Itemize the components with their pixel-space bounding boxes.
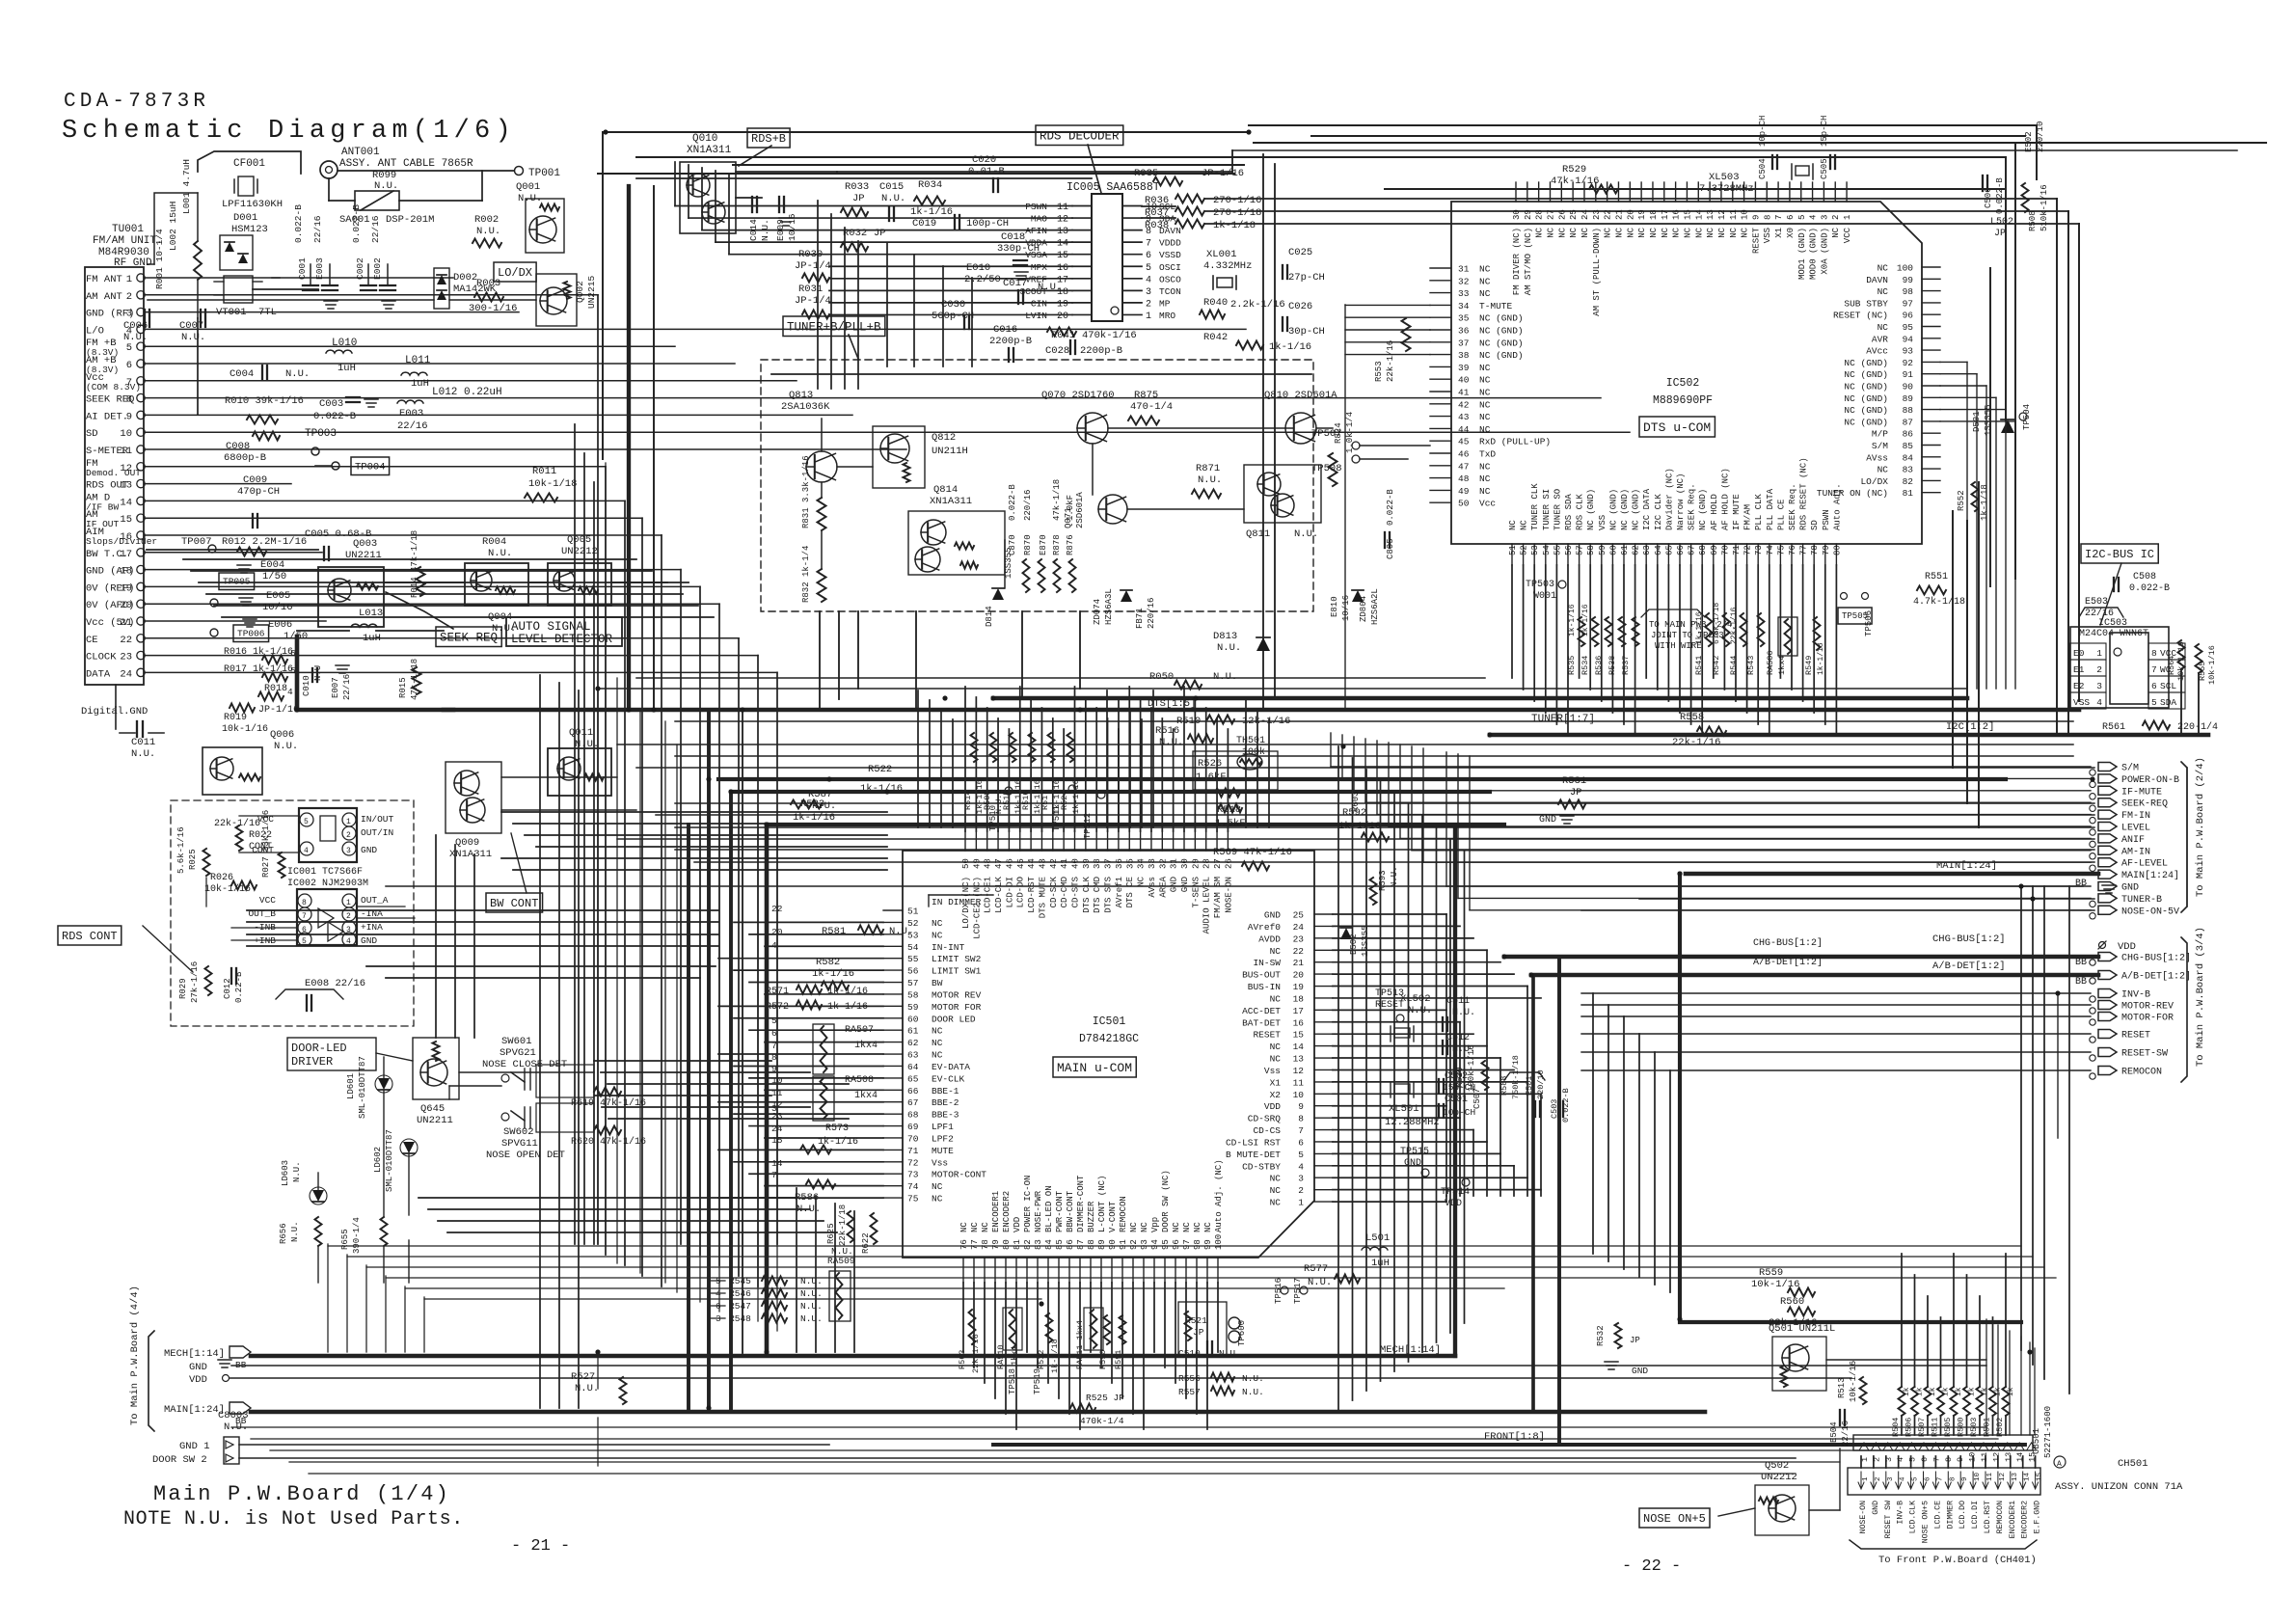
svg-text:IC502: IC502 <box>1666 377 1700 390</box>
IC501 pin 49 LCD-CE2 (NC) <box>975 831 977 851</box>
svg-text:16: 16 <box>1057 263 1068 274</box>
svg-text:Q005: Q005 <box>567 534 591 546</box>
svg-text:1: 1 <box>1146 311 1151 322</box>
IC501 pin 42 CD-SCK <box>1052 831 1054 851</box>
test point TP006 <box>233 625 269 642</box>
IC501 pin 62 NC <box>883 1042 903 1043</box>
bus FRONT[1:8] thick <box>993 1443 1559 1447</box>
svg-text:44: 44 <box>1458 424 1470 435</box>
wire tuner pin 21 <box>145 620 326 622</box>
svg-text:MOTOR-FOR: MOTOR-FOR <box>2121 1014 2174 1024</box>
svg-text:E006: E006 <box>268 619 292 631</box>
svg-text:R561: R561 <box>2102 722 2125 733</box>
svg-text:DIMMER-CONT: DIMMER-CONT <box>1076 1175 1086 1232</box>
svg-text:R002: R002 <box>474 214 499 226</box>
svg-text:96: 96 <box>1903 311 1914 321</box>
svg-text:Q501 UN211L: Q501 UN211L <box>1769 1323 1835 1335</box>
varactor VT001 <box>224 276 253 303</box>
IC501 pin 16 BAT-DET <box>1314 1021 1333 1023</box>
svg-text:NOSE-ON: NOSE-ON <box>1224 877 1233 913</box>
svg-text:CE: CE <box>86 635 98 646</box>
svg-text:55: 55 <box>1553 545 1562 555</box>
IC005 pin 7 VDDD <box>1122 241 1142 243</box>
svg-text:C015: C015 <box>879 181 904 193</box>
IC501 pin 100 Auto Adj. (NC) <box>1217 1258 1219 1283</box>
crystal XL501 12.288MHz <box>1394 1084 1410 1094</box>
svg-text:HZS6A2L: HZS6A2L <box>1370 588 1380 625</box>
IC501 pin 80 ENCODER2 <box>1005 1258 1007 1283</box>
svg-text:10k-1/16: 10k-1/16 <box>1751 1279 1799 1290</box>
IC501 pin 86 BBW-CONT <box>1068 1258 1070 1283</box>
svg-text:10/16: 10/16 <box>1341 595 1351 621</box>
svg-text:NC: NC <box>1877 322 1889 333</box>
svg-text:DRIVER: DRIVER <box>291 1055 333 1069</box>
IC502 pin 43 NC <box>1430 416 1451 418</box>
svg-text:BAT-DET: BAT-DET <box>1242 1017 1281 1028</box>
svg-text:4.332MHz: 4.332MHz <box>1203 260 1252 272</box>
IC501 pin 70 LPF2 <box>883 1137 903 1139</box>
svg-text:LO/DX: LO/DX <box>498 266 532 280</box>
svg-text:JP: JP <box>1570 787 1582 798</box>
svg-text:R034: R034 <box>918 179 942 191</box>
wire decoder lower pins <box>829 265 1072 267</box>
svg-text:SPVG21: SPVG21 <box>500 1047 536 1059</box>
svg-text:RDS CLK: RDS CLK <box>1576 494 1585 530</box>
svg-text:1: 1 <box>346 818 351 826</box>
svg-text:NC: NC <box>932 1038 943 1048</box>
svg-text:ANT001: ANT001 <box>341 147 380 158</box>
svg-text:NOSE ON+5: NOSE ON+5 <box>1643 1512 1706 1526</box>
svg-text:5: 5 <box>771 1015 777 1026</box>
svg-text:62: 62 <box>1632 545 1641 555</box>
IC501 pin 76 NC <box>962 1258 964 1283</box>
IC502 pin 75 PLL CE <box>1779 544 1781 565</box>
svg-text:LPF11630KH: LPF11630KH <box>222 199 283 210</box>
svg-text:47: 47 <box>1458 461 1469 472</box>
IC502 pin 11 NC <box>1732 182 1734 202</box>
svg-text:VCC: VCC <box>1843 227 1852 243</box>
svg-text:7: 7 <box>1774 215 1784 220</box>
svg-text:R040: R040 <box>1203 297 1228 309</box>
svg-text:11: 11 <box>1729 209 1739 220</box>
svg-text:N.U.: N.U. <box>800 1288 823 1299</box>
IC501 pin 99 NC <box>1206 1258 1208 1283</box>
svg-text:22: 22 <box>1604 209 1613 220</box>
IC502 pin 95 NC <box>1922 326 1940 328</box>
svg-text:1k-1/16: 1k-1/16 <box>1568 604 1577 636</box>
svg-text:NC: NC <box>959 1222 969 1232</box>
svg-text:7: 7 <box>1931 1457 1941 1462</box>
svg-text:D813: D813 <box>1213 631 1237 642</box>
IC502 pin 89 NC (GND) <box>1922 396 1940 398</box>
svg-text:15: 15 <box>120 514 132 526</box>
svg-text:42: 42 <box>1458 399 1470 410</box>
connector signal RESET <box>2098 1030 2117 1039</box>
svg-text:10k-1/18: 10k-1/18 <box>528 478 577 490</box>
wire Q009 to door-led verticals <box>435 835 437 1038</box>
svg-text:L002 15uH: L002 15uH <box>168 202 178 251</box>
svg-text:E503: E503 <box>2085 597 2108 608</box>
svg-text:2.2/50: 2.2/50 <box>964 274 1001 285</box>
svg-text:S/M: S/M <box>2121 763 2139 774</box>
svg-text:30: 30 <box>1180 858 1190 869</box>
wire lower-left block verticals <box>796 1188 797 1352</box>
svg-text:Q003: Q003 <box>353 538 377 550</box>
svg-text:50: 50 <box>1458 499 1470 509</box>
IC005 pin 6 VSSD <box>1122 254 1142 256</box>
svg-text:3: 3 <box>1146 287 1151 298</box>
svg-text:MECH[1:14]: MECH[1:14] <box>164 1348 225 1360</box>
svg-text:UN2211: UN2211 <box>417 1115 453 1126</box>
svg-text:XN1A311: XN1A311 <box>930 496 972 507</box>
svg-text:R019: R019 <box>224 713 247 723</box>
svg-text:LO/DX (NC): LO/DX (NC) <box>961 877 971 929</box>
IC502 pin 57 RDS CLK <box>1579 544 1580 565</box>
svg-text:0.022-B: 0.022-B <box>351 204 362 243</box>
svg-text:48: 48 <box>984 858 993 869</box>
test point TP506 <box>1841 593 1848 600</box>
svg-text:R017 1k-1/16: R017 1k-1/16 <box>224 663 293 675</box>
IC501 pin 32 AREA <box>1161 831 1163 851</box>
svg-text:TUNER ON (NC): TUNER ON (NC) <box>1817 488 1888 499</box>
svg-text:N.U.: N.U. <box>476 226 500 237</box>
svg-text:LPF1: LPF1 <box>932 1122 954 1132</box>
svg-text:86: 86 <box>1903 429 1914 440</box>
IC501 pin 64 EV-DATA <box>883 1065 903 1067</box>
svg-text:70: 70 <box>907 1133 919 1144</box>
svg-text:TCON: TCON <box>1159 286 1181 297</box>
svg-text:22/16: 22/16 <box>312 215 323 243</box>
svg-text:13: 13 <box>2004 1452 2013 1462</box>
svg-text:4: 4 <box>304 847 309 855</box>
svg-text:AVref0: AVref0 <box>1248 922 1282 933</box>
svg-text:A/B-DET[1:2]: A/B-DET[1:2] <box>2121 971 2191 983</box>
IC501 pin 84 BL-LED ON <box>1047 1258 1049 1283</box>
IC501 pin 75 NC <box>883 1197 903 1199</box>
svg-text:(COM 8.3V): (COM 8.3V) <box>86 382 141 392</box>
svg-text:23: 23 <box>1592 209 1602 220</box>
svg-text:TP503: TP503 <box>1526 580 1554 590</box>
svg-text:RESET: RESET <box>2121 1031 2150 1042</box>
svg-text:GND: GND <box>361 935 377 946</box>
wire tuner pin 2 <box>145 294 598 296</box>
svg-text:R875: R875 <box>1134 390 1158 401</box>
IC005 pin 8 DAVN <box>1122 230 1142 231</box>
svg-text:VDDD: VDDD <box>1159 238 1181 249</box>
svg-text:X2: X2 <box>1270 1090 1282 1100</box>
svg-text:R656: R656 <box>279 1223 288 1244</box>
thick bus corner mid-left <box>297 636 453 710</box>
svg-text:LD601: LD601 <box>346 1073 356 1099</box>
bus CHG-BUS thick <box>1504 955 2098 960</box>
svg-text:I2C CLK: I2C CLK <box>1654 494 1663 530</box>
svg-text:5: 5 <box>304 818 309 826</box>
svg-text:SW602: SW602 <box>503 1126 534 1138</box>
IC501 pin 73 MOTOR-CONT <box>883 1173 903 1175</box>
svg-text:Q071: Q071 <box>1064 507 1073 528</box>
svg-text:A: A <box>2057 1460 2062 1469</box>
IC501 pin 35 DTS CE <box>1128 831 1130 851</box>
svg-text:L502: L502 <box>1990 217 2013 228</box>
svg-text:57: 57 <box>1576 545 1585 555</box>
svg-text:49: 49 <box>1458 486 1470 497</box>
svg-text:48: 48 <box>1458 474 1470 484</box>
wire tuner pin 17 <box>145 552 322 554</box>
svg-text:TP007: TP007 <box>181 536 212 548</box>
svg-text:22/16: 22/16 <box>397 420 428 432</box>
connector signal MOTOR-REV <box>2098 1001 2117 1010</box>
svg-text:MAIN[1:24]: MAIN[1:24] <box>164 1404 225 1416</box>
svg-text:4: 4 <box>287 687 293 697</box>
svg-text:R531: R531 <box>1562 775 1586 787</box>
svg-text:RDS CONT: RDS CONT <box>62 930 118 943</box>
svg-text:470k-1/4: 470k-1/4 <box>1080 1416 1124 1426</box>
svg-text:79: 79 <box>991 1239 1001 1250</box>
svg-text:22/16: 22/16 <box>342 674 352 700</box>
transistor Q009 XN1A311 <box>446 762 501 833</box>
resistor R516 1k-1/16 <box>1029 733 1036 762</box>
IC501 pin 60 DOOR LED <box>883 1017 903 1019</box>
wire tuner pin 24 <box>145 671 777 673</box>
IC501 pin 94 Vpp <box>1153 1258 1155 1283</box>
svg-text:7: 7 <box>771 1170 777 1180</box>
IC501 pin 6 CD-LSI RST <box>1314 1141 1333 1143</box>
svg-text:Davider (NC): Davider (NC) <box>1664 468 1674 530</box>
svg-text:2: 2 <box>1146 299 1151 310</box>
svg-text:N.U.: N.U. <box>518 193 542 204</box>
IC503 pin 4 VSS <box>2069 692 2106 709</box>
svg-text:XL502: XL502 <box>1400 993 1431 1005</box>
svg-text:15: 15 <box>1057 251 1068 261</box>
svg-text:CD-SCK: CD-SCK <box>1049 876 1059 907</box>
svg-text:UN211H: UN211H <box>932 446 968 457</box>
svg-text:84: 84 <box>1903 452 1914 463</box>
IC005 pin 17 VREF <box>1072 278 1092 280</box>
svg-text:R526: R526 <box>1198 758 1222 770</box>
wire tuner pin 15 <box>145 517 642 519</box>
svg-text:43: 43 <box>1458 412 1470 422</box>
svg-text:R011: R011 <box>532 466 556 477</box>
svg-text:45: 45 <box>1016 858 1026 869</box>
svg-text:0.022-B: 0.022-B <box>313 411 356 422</box>
svg-text:4: 4 <box>1809 215 1819 220</box>
svg-text:XN1A311: XN1A311 <box>687 145 732 156</box>
wire IC502 bottom verticals <box>1511 565 1513 678</box>
svg-text:C019: C019 <box>912 218 936 230</box>
IC005 pin 10 SCL <box>1122 205 1142 207</box>
svg-text:220/16: 220/16 <box>1147 598 1156 629</box>
svg-text:FM/AM SM: FM/AM SM <box>1213 877 1223 918</box>
IC501 pin 66 BBE-1 <box>883 1089 903 1091</box>
test point TP516 TP517 <box>1281 1286 1288 1294</box>
svg-text:4: 4 <box>346 937 351 946</box>
svg-text:X1: X1 <box>1270 1077 1282 1088</box>
svg-text:RDS+B: RDS+B <box>751 132 786 146</box>
svg-text:LEVEL DETECTOR: LEVEL DETECTOR <box>511 633 613 646</box>
svg-text:8: 8 <box>126 394 132 406</box>
svg-text:45: 45 <box>1458 437 1470 447</box>
IC501 pin 24 AVref0 <box>1314 925 1333 927</box>
svg-text:A/B-DET[1:2]: A/B-DET[1:2] <box>1932 961 2006 972</box>
svg-text:470k-1/16: 470k-1/16 <box>1082 330 1137 341</box>
svg-text:To Main P.W.Board (3/4): To Main P.W.Board (3/4) <box>2195 927 2206 1067</box>
svg-text:56: 56 <box>1564 545 1574 555</box>
svg-text:10k-1/16: 10k-1/16 <box>1849 1361 1858 1402</box>
svg-text:BL-LED ON: BL-LED ON <box>1044 1185 1054 1232</box>
IC501 pin 83 NOSE-PWR <box>1037 1258 1039 1283</box>
IC501 pin 23 AVDD <box>1314 937 1333 939</box>
wire tuner pin 3 <box>145 311 519 313</box>
svg-text:CLOCK: CLOCK <box>86 652 117 663</box>
svg-text:1: 1 <box>126 274 132 285</box>
IC501 pin 39 DTS CLK <box>1085 831 1087 851</box>
svg-text:Q011: Q011 <box>569 727 593 739</box>
svg-text:N.U.: N.U. <box>290 1221 300 1242</box>
IC501 pin 71 MUTE <box>883 1149 903 1150</box>
svg-text:NC: NC <box>1479 412 1491 422</box>
IC IC502 body <box>1451 202 1922 544</box>
svg-text:DTS CE: DTS CE <box>1125 877 1135 907</box>
IC502 pin 40 NC <box>1430 378 1451 380</box>
wire RDS CONT to door-led horizontals <box>366 965 716 967</box>
svg-text:22k-1/16: 22k-1/16 <box>1386 340 1395 382</box>
svg-text:VSS: VSS <box>1763 228 1772 243</box>
svg-text:Narrow (NC): Narrow (NC) <box>1676 474 1686 530</box>
IC502 pin 14 NC <box>1697 182 1699 202</box>
IC502 pin 78 SD <box>1813 544 1815 565</box>
IC501 pin 79 ENCODER1 <box>994 1258 996 1283</box>
svg-text:R012 2.2M-1/16: R012 2.2M-1/16 <box>222 536 307 548</box>
svg-text:NC: NC <box>1580 227 1590 237</box>
svg-text:CIN: CIN <box>1031 298 1047 309</box>
svg-text:R551: R551 <box>1925 572 1948 582</box>
bus thick 821 <box>731 790 1490 794</box>
IC501 pin 14 NC <box>1314 1045 1333 1047</box>
svg-text:3: 3 <box>1887 1476 1895 1481</box>
svg-text:TP507: TP507 <box>1311 428 1342 440</box>
connector signal S/M <box>2098 763 2117 771</box>
connector signal INV-B <box>2098 989 2117 998</box>
IC501 pin 5 B MUTE-DET <box>1314 1152 1333 1154</box>
bus MECH thick <box>251 1354 1455 1359</box>
resistor array RA506 1kx4 <box>1778 617 1797 656</box>
svg-text:0.022-B: 0.022-B <box>1995 177 2005 214</box>
svg-text:70: 70 <box>1720 545 1730 555</box>
svg-text:TP516: TP516 <box>1274 1278 1283 1304</box>
svg-text:1k-1/18: 1k-1/18 <box>1980 484 1989 521</box>
svg-text:SD: SD <box>1810 520 1820 530</box>
svg-text:100p-CH: 100p-CH <box>966 218 1009 230</box>
svg-text:GND 1: GND 1 <box>179 1441 210 1452</box>
svg-text:LCD-CE1: LCD-CE1 <box>984 877 993 913</box>
IC502 pin 21 NC <box>1617 182 1619 202</box>
svg-text:0.022-B: 0.022-B <box>1008 484 1017 521</box>
IC502 pin 74 PLL DATA <box>1769 544 1770 565</box>
svg-text:VSSD: VSSD <box>1159 250 1181 260</box>
connector CH501 second strip <box>1848 1468 2040 1495</box>
svg-text:65: 65 <box>1664 545 1674 555</box>
diode D502 1SS355 <box>1340 928 1352 939</box>
svg-text:AVss: AVss <box>1866 452 1888 463</box>
resistor R524 1k-1/16 <box>1067 733 1074 762</box>
svg-text:GND: GND <box>2121 883 2139 894</box>
svg-text:LD603: LD603 <box>281 1160 290 1186</box>
svg-text:1: 1 <box>2096 648 2102 659</box>
svg-text:6: 6 <box>1925 1476 1932 1481</box>
svg-text:AM ANT: AM ANT <box>86 291 122 303</box>
IC502 pin 47 NC <box>1430 465 1451 467</box>
svg-text:2: 2 <box>1831 215 1841 220</box>
svg-text:LIMIT SW1: LIMIT SW1 <box>932 966 982 977</box>
wire GND bottom <box>231 1365 1986 1367</box>
svg-text:72: 72 <box>907 1157 919 1168</box>
svg-text:R513: R513 <box>1837 1377 1847 1398</box>
svg-text:99: 99 <box>1903 275 1914 285</box>
svg-text:7: 7 <box>302 912 307 921</box>
svg-text:NC: NC <box>1877 286 1889 297</box>
svg-text:N.U.: N.U. <box>1198 474 1222 486</box>
svg-text:13: 13 <box>2012 1472 2019 1481</box>
svg-text:SDA: SDA <box>2160 697 2176 708</box>
svg-text:93: 93 <box>1140 1239 1149 1250</box>
svg-text:12: 12 <box>1991 1452 2001 1462</box>
IC502 pin 92 NC (GND) <box>1922 361 1940 363</box>
IC502 pin 27 NC <box>1549 182 1551 202</box>
transistor Q006 N.U. <box>203 747 262 795</box>
svg-text:30: 30 <box>1512 209 1522 220</box>
label MAIN u-COM <box>1053 1057 1136 1077</box>
svg-text:MOD1 (GND): MOD1 (GND) <box>1797 228 1807 280</box>
IC501 pin 37 DTS STS <box>1107 831 1109 851</box>
svg-text:GND: GND <box>1632 1366 1648 1376</box>
svg-text:D784218GC: D784218GC <box>1079 1033 1139 1045</box>
svg-text:PWR-CONT: PWR-CONT <box>1055 1190 1065 1232</box>
svg-text:NC: NC <box>1649 227 1659 237</box>
svg-text:89: 89 <box>1097 1239 1107 1250</box>
svg-text:LO/DX: LO/DX <box>1860 476 1888 487</box>
svg-text:29: 29 <box>1524 209 1533 220</box>
wires RDS decoder <box>1142 205 1175 207</box>
svg-text:Q645: Q645 <box>420 1103 445 1115</box>
svg-text:Q810 2SD601A: Q810 2SD601A <box>1264 390 1337 401</box>
svg-text:NC: NC <box>970 1222 980 1232</box>
svg-text:NC: NC <box>1508 520 1518 530</box>
svg-text:FM/AM UNIT.: FM/AM UNIT. <box>93 235 163 247</box>
svg-text:ASSY. UNIZON CONN 71A: ASSY. UNIZON CONN 71A <box>2055 1481 2183 1493</box>
svg-text:LPF2: LPF2 <box>932 1133 954 1144</box>
IC501 pin 46 LCD-DI <box>1008 831 1010 851</box>
svg-text:C001: C001 <box>297 257 308 280</box>
IC502 pin 25 NC <box>1572 182 1574 202</box>
wire horizontal band <box>1639 898 2094 900</box>
svg-text:NC: NC <box>1626 227 1635 237</box>
svg-text:1k: 1k <box>1942 1387 1951 1396</box>
bus thick corner 2 <box>1559 957 2025 1445</box>
svg-text:C8003: C8003 <box>218 1410 249 1421</box>
IC005 pin 16 MPX <box>1072 265 1092 267</box>
IC501 pin 28 AUDIO LEVEL <box>1205 831 1207 851</box>
IC501 pin 4 CD-STBY <box>1314 1165 1333 1167</box>
svg-text:INV-B: INV-B <box>2121 990 2150 1001</box>
bus MAIN[1:24] thick to connector <box>1686 872 2098 877</box>
svg-text:58: 58 <box>1586 545 1596 555</box>
svg-text:16: 16 <box>120 531 132 543</box>
svg-text:NC: NC <box>1637 227 1647 237</box>
svg-text:PLL DATA: PLL DATA <box>1766 488 1775 530</box>
svg-text:NC: NC <box>1479 474 1491 484</box>
wire top verticals <box>602 132 604 459</box>
wires tuner box <box>771 373 1311 375</box>
